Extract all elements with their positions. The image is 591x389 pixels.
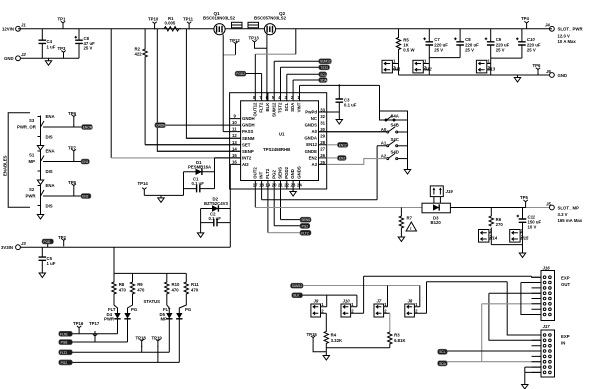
wire: J8 pin1 riser to SUM12 bus (419, 286, 421, 307)
jumper J14 (479, 228, 498, 242)
resistor R11 470 (179, 273, 199, 313)
U1 left pin numbers (232, 114, 237, 165)
svg-text:470: 470 (191, 287, 199, 292)
svg-text:GNDS: GNDS (297, 166, 302, 179)
svg-text:BSC057N03LS2: BSC057N03LS2 (254, 16, 287, 21)
svg-text:FLTB: FLTB (60, 332, 68, 336)
test point TP1 (58, 16, 66, 29)
svg-text:PwPd: PwPd (305, 110, 317, 115)
svg-text:TST2: TST2 (320, 66, 328, 70)
net flag GNDH (left, to pin10) (155, 123, 166, 128)
wire: vertical 12V to SENP gray bus (110, 29, 112, 158)
wire: Q2 gate vertical to U1 pin 6 (266, 35, 268, 101)
svg-text:0.1 uF: 0.1 uF (192, 181, 205, 186)
svg-text:J4: J4 (545, 23, 550, 28)
svg-text:TP10: TP10 (148, 16, 159, 21)
wire: rail drop right of Q2 (295, 29, 297, 54)
svg-text:26: 26 (320, 153, 325, 158)
jumper J13 (476, 59, 495, 73)
svg-text:EN1: EN1 (82, 160, 88, 164)
svg-text:470: 470 (137, 287, 145, 292)
svg-text:IN: IN (561, 341, 565, 346)
svg-text:TP3: TP3 (58, 46, 66, 51)
junction node VINT at C3 (338, 84, 340, 86)
capacitor C9 220uF 25V (polarized) (485, 29, 510, 75)
svg-text:A0: A0 (312, 129, 318, 134)
svg-text:SUM12: SUM12 (292, 284, 303, 288)
svg-text:SUM12: SUM12 (320, 60, 331, 64)
svg-text:DIS: DIS (46, 203, 53, 208)
wire: J16 row6 to SDA net (gray) (482, 304, 541, 362)
ENABLES bracket (3, 113, 31, 208)
jumper J10 (341, 298, 364, 317)
net flag SENS (below U1, pin21) (281, 217, 312, 222)
svg-text:GNDS: GNDS (305, 123, 318, 128)
wire: FLT2 to D5 FLT (72, 351, 169, 353)
wire: A0 row from pin30 (319, 131, 387, 133)
test point TP16 (73, 321, 84, 334)
svg-text:TP9: TP9 (68, 111, 76, 116)
svg-text:25 V: 25 V (465, 48, 474, 53)
svg-text:GND: GND (290, 169, 295, 179)
svg-text:15: 15 (232, 153, 237, 158)
svg-text:TP13: TP13 (249, 35, 260, 40)
svg-text:28: 28 (320, 140, 325, 145)
wire: 3V3 to status resistor bus (114, 247, 186, 273)
LED D4 PWR (FLT/PG pair) (104, 307, 138, 342)
wire: kelvin right of R1 to U1 pin 12 (186, 29, 240, 138)
svg-text:GNDA: GNDA (304, 136, 317, 141)
svg-text:GNDE: GNDE (305, 149, 318, 154)
svg-text:6.81K: 6.81K (394, 338, 406, 343)
U1 pin8 vertical to kelvin (254, 54, 256, 92)
net flag BLK (bottom) (292, 293, 303, 298)
svg-text:16: 16 (232, 159, 237, 164)
wire: SENP gray bus to U1 pin 15 (111, 157, 214, 159)
wire: SUM12 flag to pin 5 (274, 60, 319, 62)
net flag PGD2 (left of pin 7) (235, 71, 246, 76)
ground at S1 (37, 178, 43, 185)
wire: SDA to J17 row6 (gray) (447, 361, 541, 363)
svg-text:17: 17 (253, 183, 258, 188)
wire: J7 pin2 to R3 (389, 313, 391, 332)
svg-text:SDA: SDA (439, 362, 446, 366)
wire: TP13 to Q2 gate line (255, 47, 267, 49)
wire: J17 ground rows (525, 367, 541, 382)
svg-text:S3: S3 (29, 118, 35, 123)
svg-text:SLOT_ PWR: SLOT_ PWR (558, 27, 584, 32)
svg-text:PGD2: PGD2 (236, 72, 245, 76)
transistor Q1 BSC019N03LS2 (203, 11, 236, 35)
jumper J11 (382, 59, 401, 73)
connector J16 EXP OUT (532, 265, 571, 320)
switch S4A (380, 111, 408, 121)
net flag EN12 (right of pin28) (327, 142, 348, 147)
svg-text:33: 33 (320, 107, 325, 112)
svg-text:SCL: SCL (320, 73, 326, 77)
net flag PGB (59, 340, 73, 345)
svg-text:25 V: 25 V (527, 48, 536, 53)
svg-text:1 uF: 1 uF (47, 44, 56, 49)
net flag FLT2 (below U1, pin19) (268, 230, 311, 235)
svg-text:SENM: SENM (242, 136, 255, 141)
diode D3 B120 with bypass box (422, 203, 450, 225)
connector J6 GND (546, 69, 567, 78)
wire: R2 to U1 pin 13 SET (145, 144, 241, 146)
jumper J15 (510, 228, 529, 242)
wire: J16 row2 to row8 link (521, 283, 541, 315)
svg-text:PESMB16A: PESMB16A (188, 164, 211, 169)
svg-text:PWR: PWR (104, 316, 115, 321)
svg-text:SENS: SENS (278, 167, 283, 179)
U1 bottom pin names (252, 166, 301, 179)
svg-text:0.1 uF: 0.1 uF (344, 103, 357, 108)
svg-text:25 V: 25 V (434, 48, 443, 53)
resistor R4 3.32K (324, 313, 343, 353)
test point TP8 (68, 180, 76, 196)
ground at C5 (39, 271, 45, 278)
svg-text:13: 13 (232, 140, 237, 145)
svg-text:EXP: EXP (561, 334, 570, 339)
svg-text:J9: J9 (314, 298, 319, 303)
svg-text:TP5: TP5 (520, 195, 528, 200)
svg-text:470: 470 (172, 287, 180, 292)
U1 right pin stubs (319, 112, 387, 164)
wire: J16 row4 to J17 row2 (489, 293, 541, 340)
svg-text:12VIN: 12VIN (2, 27, 14, 32)
svg-text:24: 24 (297, 183, 302, 188)
svg-text:27: 27 (320, 147, 325, 152)
U1 bottom pin numbers (253, 183, 303, 188)
resistor R10 470 (165, 273, 180, 313)
svg-text:PG: PG (131, 307, 138, 312)
test point TP13 (249, 35, 260, 48)
wire: 12VIN top rail (18, 28, 552, 30)
U1 top pin numbers (253, 95, 300, 100)
svg-text:21: 21 (278, 183, 283, 188)
svg-text:18: 18 (259, 183, 264, 188)
svg-text:PG2: PG2 (61, 361, 68, 365)
svg-text:14: 14 (232, 146, 237, 151)
svg-text:SDA: SDA (320, 79, 327, 83)
svg-text:32: 32 (320, 114, 325, 119)
svg-text:BZT52C4V3: BZT52C4V3 (204, 201, 228, 206)
svg-text:PG2: PG2 (271, 169, 276, 178)
svg-text:GNDH: GNDH (242, 116, 255, 121)
svg-text:J1: J1 (21, 23, 26, 28)
svg-text:0.1 uF: 0.1 uF (209, 216, 222, 221)
net flag ENOR (row1) (82, 125, 93, 130)
net flag PG2 (below U1, pin20) (274, 223, 310, 228)
net flag PG2 (59, 360, 73, 365)
svg-text:TP19: TP19 (152, 336, 163, 341)
svg-text:EN2: EN2 (309, 155, 318, 160)
wire: PG2 to D5 PG (72, 361, 179, 363)
svg-text:GND: GND (4, 56, 14, 61)
svg-text:SUM12: SUM12 (271, 102, 276, 117)
connector J5 SLOT_MP (546, 202, 583, 223)
svg-text:OUT: OUT (561, 282, 570, 287)
test point TP17 (89, 321, 100, 342)
transistor Q2 BSC057N03LS2 (254, 11, 287, 35)
svg-text:0.005: 0.005 (165, 21, 176, 26)
svg-text:ENA: ENA (46, 114, 55, 119)
resistor R7 (399, 208, 412, 235)
switch S4B with A0 (381, 123, 408, 133)
wire: A1 row from pin18 riser (262, 146, 387, 200)
net flag SDA (bottom right) (438, 361, 448, 366)
svg-text:PG2: PG2 (302, 224, 309, 228)
wire: FLTB to D4 FLT (72, 333, 117, 335)
svg-text:470: 470 (119, 287, 127, 292)
svg-text:TP15: TP15 (307, 332, 318, 337)
svg-text:PGB: PGB (61, 341, 68, 345)
wire: R6/C11 branch verticals and bottom bus (491, 208, 522, 251)
svg-text:SCL: SCL (284, 102, 289, 111)
wire: D1/C1 left rail to TP14 ground (144, 172, 183, 196)
test point TP3 (58, 46, 66, 59)
net flag SUM12 (bottom) (291, 283, 304, 288)
wire: Q1 gate vertical to U1 pin 11 (222, 35, 224, 132)
net flag EN1 (row2) (81, 159, 89, 164)
svg-text:12.0 V: 12.0 V (558, 33, 571, 38)
wire: D1/C1 right rail to pin15 net (214, 158, 216, 189)
svg-text:J17: J17 (543, 324, 551, 329)
ground at D2/C2 (197, 230, 203, 237)
svg-text:20: 20 (272, 183, 277, 188)
svg-text:25 V: 25 V (496, 48, 505, 53)
ground at TP14 (158, 195, 164, 202)
net flag SCL (bottom right) (438, 349, 448, 354)
ground under U1 (290, 189, 296, 196)
svg-text:U1: U1 (279, 132, 285, 137)
svg-text:TP17: TP17 (89, 321, 100, 326)
svg-text:VINT: VINT (297, 102, 302, 112)
resistor R8 470 (112, 273, 127, 313)
svg-text:FLT2: FLT2 (60, 351, 67, 355)
svg-text:3V3IN: 3V3IN (1, 245, 13, 250)
connector J2 GND (4, 52, 26, 61)
package pad box between Q1 Q2 (right) (248, 22, 259, 28)
jumper J8 (405, 298, 427, 317)
wire: TST2 flag to pin 4 (281, 66, 319, 68)
test point TP7 (68, 146, 76, 162)
ground at input (45, 58, 51, 65)
wire: J10 pin2 riser to EXP trunk (363, 276, 365, 313)
svg-text:GNDH: GNDH (156, 124, 166, 128)
connector J17 EXP IN (532, 324, 570, 377)
capacitor C10 220uF 25V (polarized) (491, 29, 541, 58)
net flag SCL (top) (319, 72, 327, 77)
package pad box between Q1 Q2 (left) (232, 22, 243, 28)
svg-text:10 A Max: 10 A Max (558, 39, 577, 44)
jumper J12 (413, 59, 432, 73)
svg-text:DIS: DIS (46, 169, 53, 174)
test point TP9 (68, 111, 76, 127)
ground ring box around U1 (230, 93, 327, 189)
wire: 3V3IN line (20, 246, 230, 248)
net flag FLT2 (59, 350, 73, 355)
capacitor C5 1uF (39, 247, 56, 270)
connector J1 12VIN (2, 23, 26, 32)
net flag EN2 (right of pin26) (327, 156, 346, 161)
test point TP12 (230, 38, 241, 50)
svg-text:EN2: EN2 (82, 195, 88, 199)
svg-text:270: 270 (496, 222, 504, 227)
svg-text:J2: J2 (21, 52, 26, 57)
diode D1 PESMB16A (zener) (184, 160, 215, 175)
svg-text:TP1: TP1 (58, 16, 66, 21)
capacitor C6 47uF 25V (polarized) (75, 29, 96, 59)
svg-text:J7: J7 (377, 298, 382, 303)
resistor R9 470 (128, 273, 145, 313)
diode D2 BZT52C4V3 (zener) (201, 197, 231, 212)
ground at J17 (522, 382, 528, 389)
wire: SCL to J17 row4 (447, 350, 541, 352)
capacitor C3 0.1uF (336, 85, 357, 117)
wire: GND input rail (20, 57, 79, 59)
svg-text:3.32K: 3.32K (331, 338, 343, 343)
svg-text:TP2: TP2 (58, 235, 66, 240)
test point TP11 (183, 16, 194, 29)
test point TP18 (136, 336, 147, 353)
svg-text:J8: J8 (408, 298, 413, 303)
svg-text:PGD: PGD (43, 240, 51, 244)
svg-text:0.5 W: 0.5 W (403, 48, 415, 53)
svg-text:TP11: TP11 (183, 16, 194, 21)
svg-text:23: 23 (291, 183, 296, 188)
svg-text:OUT2: OUT2 (252, 167, 257, 179)
svg-text:3.3 V: 3.3 V (558, 212, 568, 217)
ground at R4 (323, 353, 329, 360)
capacitor C2 0.1uF (201, 211, 231, 226)
ground at S2 (37, 212, 43, 219)
svg-text:FLT2: FLT2 (301, 231, 308, 235)
wire: S4 ground bus (407, 120, 409, 167)
svg-text:INT2: INT2 (242, 156, 252, 161)
test point TP5 (520, 195, 528, 208)
capacitor C8 220uF 25V (polarized) (429, 29, 479, 58)
svg-text:S1: S1 (29, 153, 35, 158)
net flag SDA (top) (319, 78, 328, 83)
ground at cap bus (514, 75, 520, 82)
svg-text:TP4: TP4 (521, 16, 529, 21)
svg-text:TP18: TP18 (136, 336, 147, 341)
svg-text:AI2: AI2 (242, 162, 249, 167)
svg-text:25 V: 25 V (84, 46, 93, 51)
svg-text:MP: MP (29, 159, 36, 164)
svg-text:EN2: EN2 (339, 156, 345, 160)
svg-text:S2: S2 (29, 187, 35, 192)
svg-text:422: 422 (135, 52, 143, 57)
switch S1 MP (29, 148, 82, 177)
resistor R1 0.005 (shunt in rail) (164, 16, 181, 31)
svg-text:BLK: BLK (293, 294, 300, 298)
capacitor C4 1uF (39, 29, 56, 59)
connector J3 3V3IN (1, 241, 26, 250)
resistor R5 1K 0.5W (396, 29, 415, 75)
svg-text:ENOR: ENOR (83, 126, 93, 130)
svg-text:EXP: EXP (561, 276, 570, 281)
svg-text:SET: SET (242, 142, 251, 147)
wire: J7 pin1 riser to SUM12 bus (387, 286, 389, 307)
svg-text:TP12: TP12 (230, 38, 241, 43)
svg-text:10 V: 10 V (528, 225, 537, 230)
svg-text:FLT2: FLT2 (259, 102, 264, 113)
svg-text:1 uF: 1 uF (47, 261, 56, 266)
net flag TST2 (319, 65, 330, 70)
wire: R4 bottom to R3 bottom (326, 343, 390, 347)
svg-text:BLK: BLK (265, 102, 270, 112)
svg-text:J6: J6 (546, 69, 551, 74)
svg-text:TST2: TST2 (278, 102, 283, 113)
ground at S4 bank (404, 167, 410, 174)
U1 left pin stubs (145, 119, 241, 165)
IC U1 TPS2458RHB body (241, 101, 319, 181)
svg-text:INT: INT (259, 171, 264, 178)
svg-text:B120: B120 (431, 220, 442, 225)
U1 right pin names (304, 110, 317, 167)
test point TP6 (533, 63, 541, 76)
svg-text:PASS: PASS (242, 129, 254, 134)
capacitor C11 150uF 10V (polarized) (517, 214, 542, 229)
svg-text:FLT2: FLT2 (265, 168, 270, 179)
svg-text:A2: A2 (381, 154, 387, 159)
ground at C3 / pin33 (336, 117, 342, 124)
svg-text:31: 31 (320, 121, 325, 126)
svg-text:29: 29 (320, 134, 325, 139)
capacitor C1 0.1uF (184, 176, 215, 192)
svg-text:MP: MP (161, 316, 168, 321)
U1 bottom pin stubs (255, 181, 299, 233)
wire: SCL flag to pin 3 (287, 73, 319, 75)
svg-text:TP8: TP8 (68, 180, 76, 185)
svg-text:19: 19 (265, 183, 270, 188)
svg-text:PG: PG (185, 307, 192, 312)
svg-text:SDA: SDA (290, 103, 295, 112)
svg-text:SLOT_ MP: SLOT_ MP (558, 206, 580, 211)
svg-text:PWR: PWR (26, 193, 37, 198)
wire: VINT line pin1 to S4A (300, 85, 380, 111)
wire: SUM12 gray bus bottom (303, 285, 420, 287)
svg-text:10: 10 (232, 120, 237, 125)
net flag FLTB (59, 331, 73, 336)
svg-text:J16: J16 (543, 265, 551, 270)
svg-text:ENABLES: ENABLES (3, 155, 8, 176)
svg-text:GND: GND (558, 73, 568, 78)
svg-text:PWR_OR: PWR_OR (17, 124, 37, 129)
test point TP14 (138, 181, 149, 195)
svg-text:ENA: ENA (46, 183, 55, 188)
svg-text:BSC019N03LS2: BSC019N03LS2 (203, 16, 236, 21)
svg-text:165 mA Max: 165 mA Max (558, 218, 583, 223)
switch S4C with A1 (381, 137, 408, 147)
test point TP4 (521, 16, 529, 29)
svg-text:12: 12 (232, 133, 237, 138)
test point TP15 (307, 332, 327, 352)
svg-text:SENS: SENS (301, 218, 310, 222)
net flag EN2 (row3) (81, 194, 91, 199)
test point TP10 (148, 16, 159, 29)
wire: SLOT_MP rail black segment (450, 207, 525, 209)
connector J5 SLOT_PWR (545, 23, 583, 44)
svg-text:22: 22 (284, 183, 289, 188)
U1 top pin names (252, 102, 301, 117)
jumper J7 (374, 298, 390, 317)
svg-text:TP6: TP6 (533, 63, 541, 68)
U1 right pin numbers (320, 107, 325, 164)
svg-text:J3: J3 (21, 241, 26, 246)
